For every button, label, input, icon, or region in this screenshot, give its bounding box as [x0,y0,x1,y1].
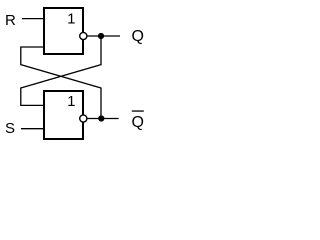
overline of Qbar [132,110,144,111]
wire Q feedback: from node A down, diagonal, down, right into U2 upper input [21,36,101,105]
svg-text:R: R [5,12,16,29]
node A (junction dot on Q) [98,33,104,39]
wire R input [22,18,43,20]
svg-text:1: 1 [67,11,75,28]
svg-text:Q: Q [132,28,144,45]
bubble U1 output [80,32,87,39]
wire Qbar output [87,118,119,120]
node B (junction dot on Qbar) [98,115,104,121]
svg-text:S: S [5,120,15,137]
svg-text:Q: Q [132,114,144,131]
gate U2 (bottom, IEC box "1") [44,91,83,139]
gate U1 (top, IEC box "1") [44,8,83,54]
wire Q output [87,35,120,37]
svg-text:1: 1 [67,93,75,110]
wire U1 lower input from Qbar feedback: left, down, diagonal, down to node B [21,47,101,119]
wire S input [21,128,43,130]
bubble U2 output [80,115,87,122]
